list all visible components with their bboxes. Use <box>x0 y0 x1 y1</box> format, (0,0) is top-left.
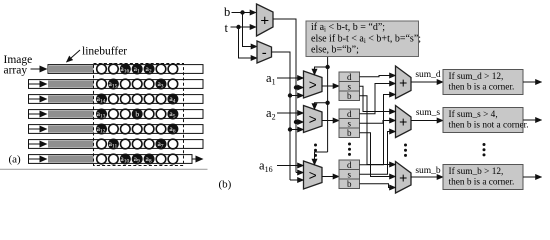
svg-text:sum_d: sum_d <box>415 70 441 80</box>
svg-text:If sum_b > 12,: If sum_b > 12, <box>449 166 504 177</box>
svg-text:s: s <box>347 81 351 91</box>
svg-text:d: d <box>347 72 352 82</box>
svg-text:b: b <box>347 179 352 189</box>
svg-text:(a): (a) <box>9 154 22 166</box>
svg-text:linebuffer: linebuffer <box>82 46 127 58</box>
svg-text:If sum_s > 4,: If sum_s > 4, <box>449 109 498 120</box>
svg-text:b: b <box>135 110 139 119</box>
svg-text:b: b <box>347 91 352 101</box>
svg-text:sum_b: sum_b <box>415 166 441 176</box>
svg-text:+: + <box>399 169 407 185</box>
svg-text:>: > <box>309 112 317 127</box>
svg-text:if ai < b-t, b = “d”;: if ai < b-t, b = “d”; <box>311 22 385 34</box>
svg-text:then b is a corner.: then b is a corner. <box>449 178 515 188</box>
svg-text:>: > <box>309 77 317 92</box>
svg-text:b: b <box>224 5 230 19</box>
svg-text:t: t <box>225 21 229 35</box>
svg-text:+: + <box>260 12 269 29</box>
svg-text:-: - <box>262 44 267 61</box>
svg-text:else, b=“b”;: else, b=“b”; <box>311 45 359 56</box>
svg-text:sum_s: sum_s <box>416 108 441 118</box>
svg-text:b: b <box>347 128 352 138</box>
svg-text:d: d <box>347 109 352 119</box>
svg-text:d: d <box>347 160 352 170</box>
svg-text:then b is not a corner.: then b is not a corner. <box>449 121 529 131</box>
svg-text:+: + <box>399 114 407 130</box>
svg-text:If sum_d > 12,: If sum_d > 12, <box>449 71 504 82</box>
svg-text:else if b-t < ai < b+t, b=“s”;: else if b-t < ai < b+t, b=“s”; <box>311 33 421 45</box>
svg-text:+: + <box>399 74 407 90</box>
svg-text:(b): (b) <box>219 179 232 191</box>
svg-text:>: > <box>309 168 317 183</box>
svg-text:array: array <box>4 65 28 77</box>
svg-text:s: s <box>347 169 351 179</box>
svg-text:s: s <box>347 118 351 128</box>
svg-text:then b is a corner.: then b is a corner. <box>449 83 515 93</box>
